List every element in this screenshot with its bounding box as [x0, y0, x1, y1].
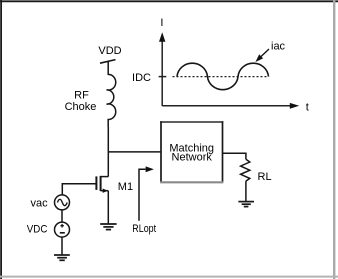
label M1 [118, 181, 133, 193]
svg-text:RLopt: RLopt [132, 223, 156, 235]
IDC dotted level line [173, 76, 269, 78]
IDC tick on I axis [159, 76, 167, 78]
graph t axis (horizontal) [162, 103, 299, 109]
svg-text:t: t [306, 101, 309, 113]
svg-text:I: I [160, 17, 163, 29]
label VDC [27, 223, 48, 235]
graph label I [160, 17, 163, 29]
border frame bottom [0, 276, 338, 278]
svg-text:RF: RF [74, 89, 89, 101]
svg-text:VDD: VDD [98, 45, 121, 57]
ground (RL) [238, 202, 254, 207]
inductor RF choke [107, 74, 116, 127]
iac pointer arrow [255, 49, 269, 62]
matching network box U1 [160, 121, 223, 182]
wire source to ground [107, 191, 109, 224]
iac waveform curve [177, 63, 269, 89]
wire matching network to RL [223, 153, 246, 159]
transistor M1 [96, 176, 108, 193]
label RL [258, 171, 272, 183]
wire VDC to ground [61, 237, 63, 255]
border frame top [0, 0, 338, 2]
ground (source) [100, 224, 116, 230]
wire drain node to matching network [108, 151, 161, 153]
wire vac to VDC [61, 210, 63, 222]
label RLopt [132, 223, 156, 235]
svg-text:IDC: IDC [132, 72, 151, 84]
wire RL to ground [245, 181, 247, 201]
VDD supply bar [100, 60, 116, 64]
graph label t [306, 101, 309, 113]
source vac [55, 195, 70, 210]
resistor RL [241, 159, 250, 181]
wire choke to drain [107, 127, 109, 177]
RLopt pointer arrow [139, 166, 154, 220]
svg-text:RL: RL [258, 171, 272, 183]
svg-text:VDC: VDC [27, 223, 48, 235]
border frame right [333, 0, 335, 279]
label IDC [132, 72, 151, 84]
svg-text:Choke: Choke [65, 101, 97, 113]
label vac [30, 197, 48, 209]
svg-text:vac: vac [30, 197, 48, 209]
svg-text:Network: Network [172, 152, 213, 164]
border frame left [0, 0, 2, 279]
label RF Choke [65, 89, 97, 113]
graph I axis (vertical) [159, 32, 165, 106]
label iac [271, 41, 286, 53]
label Matching Network [169, 142, 214, 163]
ground (VDC) [54, 255, 70, 260]
source VDC [55, 222, 70, 237]
wire VDD to choke [107, 61, 109, 75]
label VDD [98, 45, 121, 57]
svg-text:iac: iac [271, 41, 286, 53]
wire gate lead [62, 184, 95, 195]
svg-text:M1: M1 [118, 181, 133, 193]
